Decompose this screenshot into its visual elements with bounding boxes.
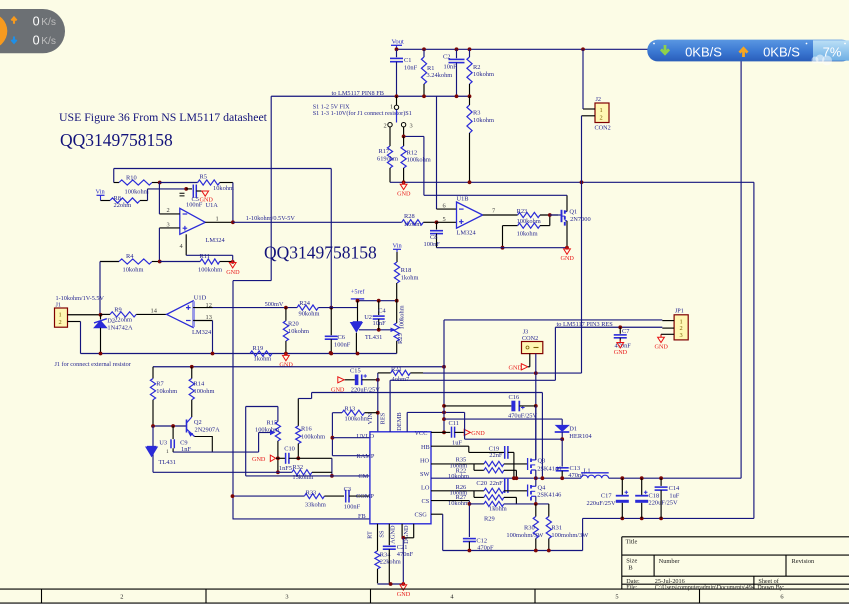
svg-text:2: 2	[59, 319, 62, 326]
svg-text:AGND: AGND	[390, 525, 397, 544]
svg-text:100kohm: 100kohm	[407, 156, 431, 163]
svg-text:100kohm: 100kohm	[125, 188, 149, 195]
svg-text:Number: Number	[659, 558, 681, 565]
svg-text:10kohm: 10kohm	[213, 185, 234, 192]
svg-text:0KB/S: 0KB/S	[763, 44, 800, 59]
wire R16 top to SW sense	[298, 398, 311, 400]
wire SW row	[431, 477, 581, 479]
trimmer R15 wiper	[258, 433, 260, 453]
resistor R10	[114, 182, 119, 184]
svg-text:10kohm: 10kohm	[156, 388, 177, 395]
svg-text:GND: GND	[226, 269, 240, 276]
resistor R18	[396, 252, 398, 262]
svg-text:U2: U2	[364, 314, 372, 321]
svg-text:Revision: Revision	[792, 558, 816, 565]
resistor R20	[285, 308, 287, 321]
svg-text:RES: RES	[379, 412, 386, 424]
wire D1 anode line	[444, 418, 562, 420]
trimmer R25	[396, 301, 398, 323]
capacitor C13	[561, 439, 563, 466]
svg-text:CON2: CON2	[595, 125, 611, 132]
resistor R29	[469, 503, 484, 505]
wire S1 pin3 to riser	[403, 127, 405, 136]
svg-text:R1: R1	[427, 65, 434, 72]
resistor R33	[233, 495, 305, 497]
svg-text:Q4: Q4	[538, 485, 547, 492]
svg-text:R10: R10	[126, 174, 137, 181]
ground at R12	[400, 184, 407, 189]
svg-text:C6: C6	[338, 334, 345, 341]
svg-text:10kohm: 10kohm	[288, 328, 309, 335]
transistor Q2 2N2907A	[186, 420, 188, 433]
svg-text:R18: R18	[401, 267, 412, 274]
svg-text:0KB/S: 0KB/S	[685, 44, 722, 59]
svg-text:3: 3	[680, 332, 683, 339]
wire GND bus y182	[390, 181, 754, 183]
svg-text:R16: R16	[301, 426, 312, 433]
resistor R23	[518, 212, 540, 217]
svg-text:R23: R23	[517, 208, 528, 215]
svg-text:C:\Users\computeradmin\Documen: C:\Users\computeradmin\Documents\494	[655, 585, 755, 591]
svg-text:LO: LO	[421, 484, 430, 491]
wire top-left rail	[114, 168, 332, 170]
sheet border band	[0, 588, 849, 590]
wire left-rail riser to C6	[330, 169, 332, 308]
svg-text:R15: R15	[267, 419, 278, 426]
wire CM line	[246, 475, 370, 477]
resistor R19	[250, 351, 272, 356]
resistor R11	[160, 261, 201, 263]
svg-text:K/s: K/s	[41, 17, 56, 28]
wire Vout run to riser	[609, 477, 741, 479]
svg-text:U1A: U1A	[206, 202, 219, 209]
switch S1 pin 1	[396, 96, 398, 105]
wire Vout top rail	[397, 48, 648, 50]
svg-text:1kohm: 1kohm	[254, 356, 272, 363]
svg-text:RT: RT	[367, 531, 374, 539]
svg-text:QQ3149758158: QQ3149758158	[264, 242, 377, 262]
svg-text:GND: GND	[397, 591, 411, 598]
resistor R36 gate pulldown	[503, 225, 518, 227]
svg-text:2SK4146: 2SK4146	[537, 465, 561, 472]
wire FB net horizontal	[271, 95, 469, 97]
wire gnd rail U1B	[437, 247, 568, 249]
svg-text:R31: R31	[551, 524, 562, 531]
svg-text:J1 for connect external resist: J1 for connect external resistor	[55, 361, 131, 368]
wire S1-pin3 line to Q1	[424, 194, 567, 196]
wire Q1 drain	[566, 195, 568, 211]
svg-text:GND: GND	[331, 386, 345, 393]
svg-text:CM: CM	[358, 473, 368, 480]
svg-text:25-Jul-2016: 25-Jul-2016	[655, 578, 685, 585]
svg-text:22ohm: 22ohm	[114, 316, 132, 323]
wire +5ref rail	[358, 300, 398, 302]
svg-text:+5ref: +5ref	[351, 289, 366, 296]
svg-text:33kohm: 33kohm	[305, 501, 326, 508]
capacitor C3	[345, 490, 347, 503]
resistor R7	[152, 367, 154, 379]
capacitor C10	[276, 457, 286, 459]
wire JP1 pin3 gnd	[661, 333, 674, 335]
svg-text:C20: C20	[476, 480, 487, 487]
capacitor C1	[396, 49, 398, 57]
resistor R28	[402, 220, 424, 225]
trimmer R15	[275, 422, 280, 441]
wire U1B pin5	[437, 221, 457, 223]
svg-text:7%: 7%	[823, 44, 842, 59]
svg-text:C11: C11	[449, 420, 459, 427]
svg-text:R19: R19	[253, 345, 264, 352]
svg-text:QQ3149758158: QQ3149758158	[60, 130, 173, 150]
svg-text:C16: C16	[509, 394, 520, 401]
resistor R21	[378, 372, 391, 374]
wire JP1 pin1 net	[443, 320, 445, 367]
resistor R9	[101, 313, 111, 315]
svg-text:D1: D1	[569, 426, 577, 433]
capacitor C4	[378, 301, 380, 315]
svg-text:C4: C4	[378, 307, 386, 314]
wire Q2 emitter	[195, 437, 213, 453]
resistor R22	[473, 464, 475, 470]
ground at R20	[283, 355, 290, 360]
capacitor C2	[456, 49, 458, 58]
resistor R14	[191, 367, 193, 379]
svg-text:GND: GND	[655, 344, 669, 351]
svg-text:Date:: Date:	[626, 578, 640, 585]
wire RAMP line	[332, 455, 370, 457]
svg-text:R3: R3	[473, 110, 480, 117]
wire GND bus right riser	[753, 182, 755, 518]
svg-text:100kohm: 100kohm	[399, 305, 406, 329]
wire VIN riser	[377, 373, 379, 432]
svg-text:CSG: CSG	[415, 511, 428, 518]
svg-text:LM324: LM324	[457, 230, 477, 237]
svg-text:LM324: LM324	[192, 329, 212, 336]
svg-text:1-10kohm/1V-5.5V: 1-10kohm/1V-5.5V	[56, 295, 105, 302]
svg-text:1: 1	[216, 215, 219, 222]
svg-text:1: 1	[600, 107, 603, 114]
wire 500mV line	[213, 307, 298, 309]
svg-text:C3: C3	[344, 486, 351, 493]
wire RES riser	[389, 380, 391, 432]
svg-text:R8: R8	[114, 195, 121, 202]
wire FB line	[233, 518, 370, 520]
mosfet Q4 2SK4146	[527, 485, 529, 497]
resistor R16	[297, 399, 299, 426]
transistor Q1 2N7000	[550, 214, 562, 216]
wire bottom pins gnd	[378, 583, 404, 585]
svg-text:FB: FB	[358, 513, 366, 520]
resistor R12	[403, 136, 405, 146]
svg-text:R17: R17	[379, 148, 390, 155]
wire DEMB	[406, 412, 408, 431]
wire Q4 source	[535, 496, 537, 504]
svg-text:HB: HB	[421, 444, 430, 451]
svg-text:100nF: 100nF	[344, 503, 361, 510]
svg-text:100nF: 100nF	[424, 241, 441, 248]
svg-text:1nF5: 1nF5	[279, 465, 292, 472]
svg-text:GND: GND	[614, 349, 628, 356]
ground at C7	[617, 343, 624, 348]
svg-text:100mohm/3W: 100mohm/3W	[506, 532, 544, 539]
svg-text:2: 2	[600, 115, 603, 122]
wire R8 to C5 node	[148, 188, 187, 190]
svg-text:Title: Title	[626, 539, 638, 546]
wire riser x424 down	[423, 136, 425, 195]
svg-text:C1: C1	[404, 57, 411, 64]
ground at Q1	[564, 249, 571, 254]
svg-text:22ohm: 22ohm	[114, 202, 132, 209]
svg-text:DEMB: DEMB	[396, 412, 403, 430]
wire U3 cathode riser	[152, 426, 154, 472]
svg-text:470uF/25V: 470uF/25V	[508, 412, 538, 419]
svg-text:to LM5117 PIN3 RES: to LM5117 PIN3 RES	[557, 321, 614, 328]
mosfet Q3 2SK4146	[527, 458, 529, 470]
capacitor C16 electrolytic	[444, 405, 511, 407]
capacitor C12	[463, 538, 476, 540]
shunt ref U2 TL431	[357, 301, 359, 322]
svg-text:22nF: 22nF	[490, 480, 504, 487]
svg-text:to LM5117 PIN8 FB: to LM5117 PIN8 FB	[332, 90, 384, 97]
svg-text:1kohm: 1kohm	[404, 221, 422, 228]
capacitor C11	[444, 431, 450, 433]
capacitor C20	[504, 478, 506, 493]
svg-text:CON2: CON2	[522, 335, 538, 342]
svg-text:1-10kohm/0.5V-5V: 1-10kohm/0.5V-5V	[246, 215, 296, 222]
resistor R27	[473, 491, 475, 498]
svg-text:C7: C7	[622, 328, 630, 335]
wire gnd mid rail	[81, 353, 397, 355]
svg-text:C10: C10	[284, 446, 295, 453]
resistor R5	[160, 182, 198, 184]
svg-text:100ohm: 100ohm	[194, 388, 215, 395]
svg-text:R9: R9	[114, 306, 121, 313]
svg-text:100kohm: 100kohm	[255, 426, 279, 433]
resistor R8	[101, 200, 111, 202]
svg-text:14: 14	[151, 308, 158, 315]
svg-text:R13: R13	[345, 406, 356, 413]
svg-text:10nF: 10nF	[404, 64, 418, 71]
svg-text:SW: SW	[420, 471, 430, 478]
wire AGND riser to gnd	[402, 538, 404, 584]
svg-text:J2: J2	[596, 96, 602, 103]
wire Q2 base line	[153, 425, 187, 427]
svg-text:GND: GND	[509, 364, 523, 371]
resistor R3	[467, 105, 472, 133]
svg-text:3.24kohm: 3.24kohm	[427, 72, 453, 79]
svg-text:1uF: 1uF	[669, 493, 679, 500]
svg-text:Vin: Vin	[393, 243, 403, 250]
svg-text:C13: C13	[570, 465, 581, 472]
svg-text:RAMP: RAMP	[357, 453, 375, 460]
wire J1 pin1 riser	[99, 262, 101, 315]
svg-text:100mohm/3W: 100mohm/3W	[551, 532, 589, 539]
wire R7R14 top rail	[153, 366, 444, 368]
svg-text:R21: R21	[391, 366, 402, 373]
svg-text:R28: R28	[404, 213, 415, 220]
svg-text:C2: C2	[443, 54, 450, 61]
svg-text:R5: R5	[200, 173, 207, 180]
svg-text:VIN: VIN	[367, 413, 374, 425]
resistor R13	[332, 412, 342, 414]
overlay left speed pill	[0, 9, 65, 53]
overlay right speed bar	[647, 40, 849, 66]
svg-text:4ohm7: 4ohm7	[392, 376, 411, 383]
switch S1 pin 3	[401, 123, 405, 127]
svg-text:Vin: Vin	[96, 189, 106, 196]
svg-text:R7: R7	[156, 380, 164, 387]
ground at C11	[464, 429, 470, 435]
capacitor C6	[330, 308, 332, 336]
svg-text:Drawn By:: Drawn By:	[757, 584, 785, 591]
svg-text:0: 0	[33, 15, 40, 29]
wire U3 line to R32	[153, 471, 278, 473]
svg-text:GND: GND	[279, 362, 293, 369]
svg-text:470nF: 470nF	[397, 551, 414, 558]
ground at IC bottom	[400, 585, 407, 590]
svg-text:6: 6	[780, 594, 783, 601]
svg-text:LM324: LM324	[206, 237, 226, 244]
wire VCC node	[443, 367, 445, 433]
svg-text:100kohm: 100kohm	[301, 433, 325, 440]
title block frame	[622, 536, 849, 538]
svg-text:R30: R30	[524, 524, 535, 531]
wire SS C21	[388, 524, 390, 545]
switch S1 pin 2	[388, 123, 392, 127]
wire CS row	[431, 500, 469, 502]
svg-text:90kohm: 90kohm	[299, 310, 320, 317]
svg-text:100kohm: 100kohm	[345, 416, 369, 423]
svg-text:HER104: HER104	[569, 433, 592, 440]
svg-text:TL431: TL431	[159, 459, 176, 466]
resistor R17	[389, 127, 391, 146]
resistor R2	[469, 49, 471, 57]
wire FB jog	[233, 280, 271, 282]
svg-text:2N7000: 2N7000	[570, 216, 591, 223]
resistor R31	[548, 504, 550, 517]
svg-text:3: 3	[167, 221, 170, 228]
capacitor C7	[619, 327, 621, 334]
wire RT R34	[377, 524, 379, 551]
diode D1 HER104	[556, 425, 569, 431]
svg-text:R29: R29	[484, 516, 495, 523]
wire J2 pin2	[582, 115, 596, 117]
svg-text:1kohm: 1kohm	[489, 506, 507, 513]
wire DEMB to D1 line	[464, 412, 466, 439]
wire SW sense riser	[541, 393, 543, 479]
resistor R1	[423, 49, 425, 57]
ground at C5	[202, 191, 209, 196]
svg-text:100nF: 100nF	[334, 341, 351, 348]
svg-text:COMP: COMP	[356, 493, 374, 500]
svg-text:GND: GND	[471, 430, 485, 437]
IC U4 LM5117 body	[370, 432, 431, 524]
wire output cap bus	[583, 517, 754, 519]
svg-text:0: 0	[33, 34, 40, 48]
resistor R30	[535, 504, 537, 517]
svg-text:C17: C17	[601, 492, 612, 499]
capacitor C17 electrolytic	[621, 478, 623, 495]
wire pin6 riser	[436, 96, 438, 209]
svg-text:R4: R4	[126, 253, 134, 260]
wire U2 ref line	[359, 329, 394, 331]
svg-text:R25: R25	[397, 333, 404, 344]
svg-text:1: 1	[390, 104, 393, 111]
svg-text:GND: GND	[561, 255, 575, 262]
svg-text:2: 2	[384, 122, 387, 129]
wire R21 to J2 line	[423, 372, 582, 374]
svg-text:10kohm: 10kohm	[448, 473, 469, 480]
svg-text:R32: R32	[292, 464, 303, 471]
resistor R4	[100, 261, 119, 263]
svg-text:TL431: TL431	[365, 334, 382, 341]
wire FB riser left	[270, 96, 272, 280]
wire Q1 source to gnd rail	[566, 221, 568, 248]
svg-text:10kohm: 10kohm	[123, 267, 144, 274]
svg-text:R20: R20	[288, 321, 299, 328]
svg-text:1uF: 1uF	[452, 439, 462, 446]
wire HO row	[431, 463, 469, 465]
svg-text:GND: GND	[252, 456, 266, 463]
svg-text:HO: HO	[420, 457, 430, 464]
svg-text:3: 3	[285, 594, 288, 601]
svg-text:2N2907A: 2N2907A	[195, 427, 221, 434]
wire PIN3 RES net	[554, 327, 556, 380]
shunt ref U3 TL431	[147, 446, 156, 448]
wire Vout riser to top	[740, 61, 742, 478]
svg-text:U1D: U1D	[194, 294, 207, 301]
node Vout rail junctions	[395, 47, 399, 51]
wire Q4 drain	[535, 478, 537, 486]
svg-text:JP1: JP1	[675, 307, 684, 314]
wire D1 cathode node	[561, 432, 563, 439]
svg-text:100kohm: 100kohm	[198, 267, 222, 274]
svg-text:2: 2	[167, 207, 170, 214]
svg-text:R11: R11	[200, 253, 210, 260]
svg-text:R12: R12	[407, 149, 418, 156]
svg-text:220uF/25V: 220uF/25V	[587, 500, 617, 507]
wire bottom gnd run	[443, 550, 583, 552]
svg-text:SS: SS	[379, 530, 386, 538]
zener D2 1N4742A	[100, 315, 102, 320]
svg-text:1N4742A: 1N4742A	[107, 325, 133, 332]
svg-text:1kohm: 1kohm	[401, 274, 419, 281]
svg-text:10nF: 10nF	[373, 320, 387, 327]
svg-text:File:: File:	[626, 585, 637, 591]
svg-text:5: 5	[443, 216, 446, 223]
svg-text:R2: R2	[473, 64, 480, 71]
wire UVLO chain	[331, 413, 333, 456]
svg-text:10kohm: 10kohm	[473, 71, 494, 78]
resistor R24	[297, 305, 318, 310]
svg-text:C21: C21	[397, 544, 408, 551]
svg-text:GND: GND	[397, 191, 411, 198]
node FB net junctions	[395, 94, 399, 98]
svg-text:R14: R14	[194, 380, 205, 387]
svg-text:15kohm: 15kohm	[292, 474, 313, 481]
svg-text:C14: C14	[669, 485, 680, 492]
svg-text:22nF: 22nF	[489, 452, 503, 459]
svg-text:Size: Size	[626, 557, 637, 564]
svg-text:C18: C18	[649, 493, 660, 500]
svg-text:3: 3	[410, 122, 413, 129]
svg-text:22kohm: 22kohm	[380, 558, 401, 565]
wire CSG	[431, 513, 443, 515]
switch S1 blade	[396, 110, 398, 123]
svg-text:Vout: Vout	[392, 39, 405, 46]
svg-text:5: 5	[615, 594, 618, 601]
svg-text:U1B: U1B	[457, 195, 469, 202]
